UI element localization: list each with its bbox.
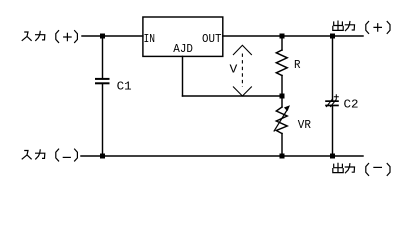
wire R top lead (281, 36, 283, 50)
node C2 top (330, 34, 335, 39)
svg-text:IN: IN (144, 33, 156, 46)
voltage arrow V dashed line (241, 54, 243, 88)
node VR bottom (280, 154, 285, 159)
capacitor C2 diagonal hatch (326, 99, 336, 107)
wire C2 bottom lead (332, 106, 334, 156)
resistor R zigzag (276, 50, 287, 76)
wire R bottom lead (281, 76, 283, 97)
wire AJD pin drop (182, 56, 184, 96)
junction node dots (100, 34, 335, 159)
wire VR bottom lead (281, 134, 283, 157)
svg-text:OUT: OUT (202, 33, 222, 46)
svg-text:R: R (294, 59, 301, 72)
wire C2 top lead (332, 36, 334, 100)
capacitor C1 plates (95, 78, 110, 84)
node C1 bottom (100, 154, 105, 159)
svg-text:C2: C2 (344, 99, 359, 112)
wire C1 top lead (102, 36, 104, 78)
node input C1 top (100, 34, 105, 39)
svg-text:V: V (230, 63, 239, 77)
wire top-left rail (82, 35, 143, 37)
wire top-right rail (OUT net) (223, 35, 363, 37)
VR wiper arrow (274, 109, 288, 132)
capacitor C2 plates (electrolytic) (325, 100, 339, 106)
wire C1 bottom lead (102, 84, 104, 156)
label input plus (nyuuryoku +) (22, 31, 77, 43)
label output plus (shutsuryoku +) (333, 21, 390, 33)
wire AJD horizontal to node (183, 95, 283, 97)
voltage arrow V top chevron (233, 45, 252, 96)
wire VR top lead (281, 96, 283, 107)
svg-text:AJD: AJD (173, 43, 193, 56)
node ADJ/R/VR (280, 94, 285, 99)
svg-text:C1: C1 (117, 81, 132, 94)
capacitor C2 polarity plus (334, 94, 339, 99)
voltage arrow V bottom chevron (233, 87, 252, 97)
svg-text:VR: VR (298, 119, 311, 132)
node C2 bottom (330, 154, 335, 159)
wire bottom rail (minus net) (81, 155, 363, 157)
node R top (280, 34, 285, 39)
label input minus (nyuuryoku -) (22, 149, 77, 161)
regulator U1 box (143, 17, 223, 56)
variable resistor VR zigzag (276, 107, 287, 134)
label output minus (shutsuryoku -) (333, 163, 390, 175)
